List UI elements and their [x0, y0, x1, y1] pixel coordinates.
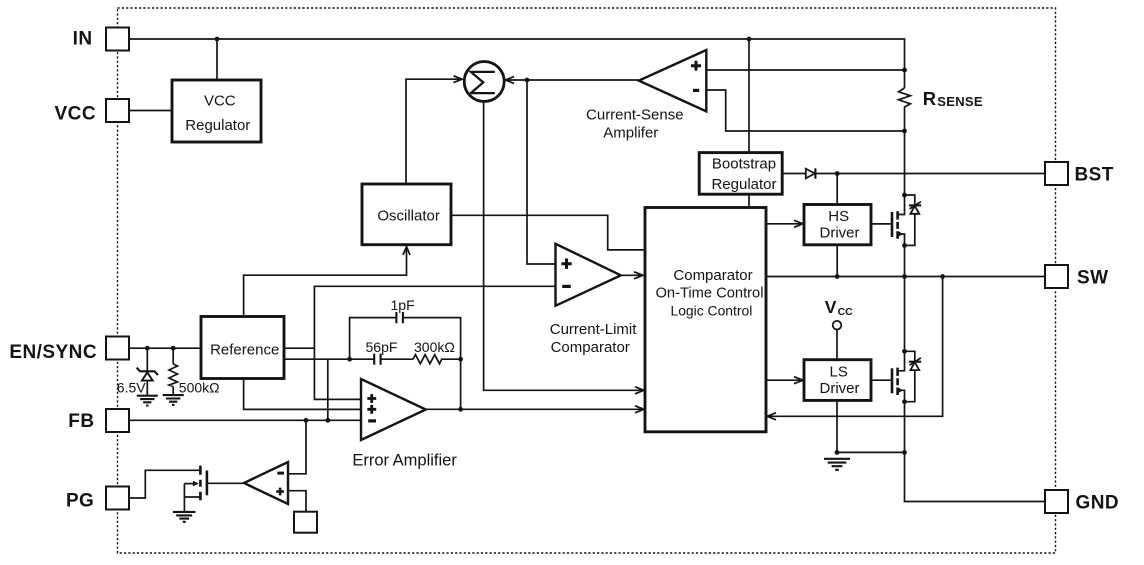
svg-text:VCC: VCC [204, 92, 236, 109]
op-amp current-limit comparator [556, 244, 621, 306]
block comparator on-time control logic [645, 208, 766, 432]
wire current-limit output to control logic with arrow [621, 272, 643, 279]
threshold box [294, 512, 317, 533]
pin VCC [55, 99, 129, 125]
wire VCC pin to regulator [129, 110, 172, 112]
wire control logic to LS driver with arrow [766, 377, 803, 384]
transistor HS MOSFET Q1 [892, 193, 907, 248]
wire EN/SYNC to reference [129, 346, 201, 351]
wire reference upper output to node [284, 347, 314, 349]
svg-text:BST: BST [1075, 165, 1114, 186]
pin FB [68, 409, 129, 432]
diode HS body diode [905, 195, 922, 245]
wire SW feedback to control logic with arrow [767, 277, 943, 420]
svg-text:FB: FB [68, 411, 94, 432]
wire reference lower output to compensation network [284, 358, 374, 360]
svg-text:500kΩ: 500kΩ [179, 380, 220, 396]
svg-text:EN/SYNC: EN/SYNC [9, 342, 97, 363]
svg-text:Bootstrap: Bootstrap [712, 156, 776, 173]
svg-text:Regulator: Regulator [711, 176, 776, 193]
svg-text:R: R [923, 88, 936, 109]
node VCC terminal [825, 297, 853, 360]
svg-text:56pF: 56pF [366, 339, 398, 355]
label 300k [414, 339, 455, 355]
svg-text:VCC: VCC [55, 104, 96, 125]
pin BST [1045, 162, 1114, 186]
junction 1pF branch [347, 357, 352, 362]
svg-text:6.5V: 6.5V [117, 380, 146, 396]
wire ground rail to GND pin [905, 452, 1046, 501]
svg-text:Driver: Driver [820, 225, 860, 242]
svg-text:Comparator: Comparator [551, 339, 630, 356]
svg-text:PG: PG [66, 491, 94, 512]
svg-text:300kΩ: 300kΩ [414, 339, 455, 355]
wire HS source to SW line [904, 245, 906, 276]
svg-text:Reference: Reference [210, 341, 279, 358]
svg-text:Error Amplifier: Error Amplifier [352, 451, 457, 469]
block VCC Regulator U1 [172, 80, 261, 142]
svg-text:Current-Sense: Current-Sense [586, 107, 684, 124]
wire PG comparator - input to FB line [288, 420, 306, 474]
transistor LS MOSFET Q2 [892, 349, 907, 404]
wire error amp output to control logic with arrow [426, 406, 644, 413]
svg-text:Regulator: Regulator [185, 117, 250, 134]
wire SW line [766, 274, 1045, 279]
pin EN/SYNC [9, 337, 129, 364]
ground below zener [137, 396, 158, 406]
svg-text:HS: HS [828, 208, 849, 225]
pin SW [1045, 265, 1109, 289]
wire PG comparator + input to threshold box [288, 491, 306, 512]
wire PG gate to comparator output [207, 482, 244, 484]
transistor PG MOSFET Q3 [184, 466, 207, 512]
svg-text:On-Time Control: On-Time Control [655, 286, 763, 302]
pin IN [73, 28, 129, 51]
wire summing junction tap to current-limit + input [527, 80, 556, 264]
wire reference bottom to error amp middle + input [244, 379, 361, 410]
wire summing junction bottom to control logic with arrow [484, 101, 644, 394]
wire PG pin to PG MOSFET drain [129, 470, 200, 498]
op-amp error amplifier [361, 379, 426, 440]
wire FB to error amp - input [129, 418, 361, 423]
svg-text:SENSE: SENSE [937, 94, 983, 109]
svg-text:SW: SW [1077, 268, 1109, 289]
wire bootstrap bottom to control logic [748, 194, 750, 207]
wire compensation tap to FB line [327, 359, 329, 420]
pin PG [66, 487, 129, 512]
svg-text:Oscillator: Oscillator [377, 207, 440, 224]
block LS Driver [804, 360, 871, 401]
resistor 500k [169, 348, 178, 395]
diode LS body diode [905, 351, 922, 401]
junction BST to HS driver [835, 171, 840, 204]
block Oscillator [362, 184, 451, 245]
wire oscillator output to control logic [451, 215, 645, 250]
block Bootstrap Regulator [699, 153, 782, 195]
summing junction S1 [464, 62, 504, 102]
wire control logic to HS driver with arrow [766, 220, 803, 227]
wire bootstrap output to BST [782, 173, 1045, 175]
wire reference node to current-limit - input and error amp + input [314, 286, 555, 399]
label 500k [179, 380, 220, 396]
resistor 300k [413, 355, 461, 364]
junction IN to VCC regulator [215, 37, 220, 80]
block HS Driver [804, 205, 871, 245]
wire IN rail to top-right corner [129, 39, 905, 88]
svg-text:Comparator: Comparator [673, 267, 752, 284]
junction on summing wire [525, 78, 530, 83]
svg-text:Driver: Driver [820, 380, 860, 397]
wire current-sense output to summing junction with arrow [506, 77, 639, 84]
label 56pF [366, 339, 398, 355]
label RSENSE [923, 88, 983, 109]
wire LS source to ground line [904, 402, 906, 453]
svg-text:Current-Limit: Current-Limit [550, 321, 638, 338]
label current-limit comparator [550, 321, 638, 356]
svg-text:V: V [825, 297, 837, 317]
svg-text:LS: LS [830, 363, 848, 380]
zener diode 6.5V [137, 348, 158, 395]
wire 1pF branch [350, 318, 463, 412]
svg-text:GND: GND [1076, 492, 1120, 513]
wire current-sense + input to RSENSE top [706, 68, 907, 73]
svg-text:Logic Control: Logic Control [670, 303, 752, 319]
svg-text:1pF: 1pF [391, 297, 415, 313]
capacitor 1pF [396, 312, 403, 323]
resistor RSENSE [899, 88, 911, 195]
ground below LS driver [824, 459, 850, 470]
wire reference to oscillator bottom with arrow [244, 247, 410, 317]
label 6.5V [117, 380, 146, 396]
wire HS driver to HS gate [871, 223, 891, 225]
svg-text:CC: CC [838, 306, 854, 318]
pin GND [1045, 490, 1119, 513]
wire SW line to LS drain [904, 277, 906, 352]
junction IN to bootstrap regulator [747, 37, 752, 153]
wire LS driver bottom to ground [835, 400, 907, 454]
op-amp PG comparator [244, 462, 288, 504]
ground below resistor 500k [163, 395, 184, 405]
label error amplifier [352, 451, 457, 469]
op-amp current-sense amplifier [639, 50, 707, 111]
label 1pF [391, 297, 415, 313]
chip boundary dashed border [118, 8, 1056, 553]
diode bootstrap D1 [806, 168, 816, 178]
ground below PG MOSFET [173, 512, 196, 522]
wire oscillator top to summing junction with arrow [406, 76, 462, 184]
label current-sense amplifier [586, 107, 684, 142]
wire HS driver bottom to SW line [836, 245, 838, 277]
svg-text:Amplifer: Amplifer [603, 125, 658, 142]
block Reference [201, 317, 284, 379]
wire current-sense - input to RSENSE bottom [706, 90, 907, 133]
wire LS driver to LS gate [871, 379, 891, 381]
svg-text:IN: IN [73, 28, 93, 49]
capacitor 56pF [374, 354, 413, 365]
